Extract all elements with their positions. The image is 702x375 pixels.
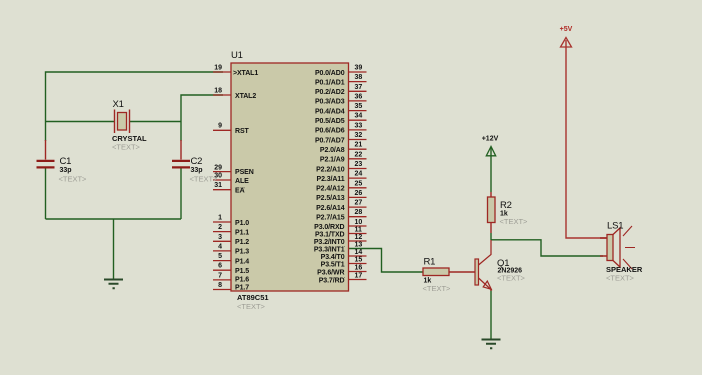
U1 right pin stubs P3 bbox=[349, 226, 367, 280]
svg-text:38: 38 bbox=[355, 74, 363, 81]
svg-text:28: 28 bbox=[355, 209, 363, 216]
svg-text:P3.4/T0: P3.4/T0 bbox=[321, 254, 345, 261]
svg-text:P0.0/AD0: P0.0/AD0 bbox=[315, 70, 345, 77]
wire C2 bottom bbox=[180, 169, 182, 220]
svg-text:P0.3/AD3: P0.3/AD3 bbox=[315, 99, 345, 106]
svg-text:P3.2/INT0: P3.2/INT0 bbox=[314, 239, 345, 246]
svg-text:>XTAL1: >XTAL1 bbox=[233, 70, 258, 77]
svg-text:33: 33 bbox=[355, 122, 363, 129]
wire +5V to speaker top terminal (red power net) bbox=[566, 40, 607, 238]
svg-text:39: 39 bbox=[355, 65, 363, 72]
wire XTAL2 net: pin18 to C2 column bbox=[181, 95, 223, 141]
power symbol +5V bbox=[560, 26, 573, 47]
speaker LS1 bbox=[600, 221, 643, 283]
svg-text:LS1: LS1 bbox=[607, 221, 623, 232]
svg-text:17: 17 bbox=[355, 273, 363, 280]
op-amp U1 chip body AT89C51 bbox=[231, 50, 349, 311]
svg-text:7: 7 bbox=[218, 272, 222, 279]
svg-text:P2.3/A11: P2.3/A11 bbox=[317, 176, 345, 183]
U1 left pin stubs bbox=[213, 72, 231, 290]
ground symbol left bbox=[104, 280, 123, 289]
svg-text:33p: 33p bbox=[191, 167, 203, 174]
svg-text:<TEXT>: <TEXT> bbox=[500, 217, 529, 226]
svg-text:P0.5/AD5: P0.5/AD5 bbox=[315, 118, 345, 125]
svg-text:P3.3/INT1: P3.3/INT1 bbox=[314, 246, 345, 253]
svg-text:P2.2/A10: P2.2/A10 bbox=[316, 166, 345, 173]
wire XTAL1 net: pin19 to left column bbox=[46, 72, 224, 141]
svg-text:<TEXT>: <TEXT> bbox=[112, 143, 141, 152]
svg-text:6: 6 bbox=[218, 263, 222, 270]
svg-text:14: 14 bbox=[355, 249, 363, 256]
svg-text:C1: C1 bbox=[60, 156, 72, 167]
svg-text:<TEXT>: <TEXT> bbox=[497, 274, 526, 283]
svg-text:<TEXT>: <TEXT> bbox=[606, 274, 635, 283]
svg-text:P1.4: P1.4 bbox=[235, 258, 249, 265]
svg-text:5: 5 bbox=[218, 253, 222, 260]
svg-text:P3.7/RD: P3.7/RD bbox=[319, 277, 345, 284]
U1 right pin names P2 bbox=[316, 147, 345, 222]
svg-text:P2.7/A15: P2.7/A15 bbox=[316, 215, 345, 222]
svg-text:4: 4 bbox=[218, 243, 222, 250]
svg-text:18: 18 bbox=[214, 88, 222, 95]
U1 right pin names P3 bbox=[314, 224, 345, 284]
svg-text:P1.7: P1.7 bbox=[235, 284, 249, 291]
svg-text:33p: 33p bbox=[60, 167, 72, 174]
ground symbol under Q1 bbox=[482, 340, 501, 349]
resistor R1 bbox=[423, 257, 476, 294]
svg-text:8: 8 bbox=[218, 282, 222, 289]
svg-text:25: 25 bbox=[355, 180, 363, 187]
svg-text:U1: U1 bbox=[231, 50, 243, 61]
svg-text:R2: R2 bbox=[500, 200, 512, 211]
transistor Q1 2N2926 bbox=[475, 240, 526, 291]
svg-text:<TEXT>: <TEXT> bbox=[237, 302, 266, 311]
svg-text:P0.2/AD2: P0.2/AD2 bbox=[315, 89, 345, 96]
svg-text:R1: R1 bbox=[424, 257, 436, 268]
svg-text:P3.1/TXD: P3.1/TXD bbox=[315, 231, 345, 238]
svg-text:11: 11 bbox=[355, 227, 363, 234]
svg-text:RST: RST bbox=[235, 128, 250, 135]
svg-text:+5V: +5V bbox=[560, 26, 573, 33]
wire C1 bottom bbox=[45, 169, 47, 220]
U1 left pin names bbox=[233, 70, 258, 291]
svg-text:AT89C51: AT89C51 bbox=[237, 293, 269, 302]
svg-text:<TEXT>: <TEXT> bbox=[59, 174, 88, 183]
svg-text:P1.6: P1.6 bbox=[235, 277, 249, 284]
svg-text:P0.7/AD7: P0.7/AD7 bbox=[315, 137, 345, 144]
svg-text:32: 32 bbox=[355, 132, 363, 139]
svg-text:12: 12 bbox=[355, 234, 363, 241]
svg-text:XTAL2: XTAL2 bbox=[235, 93, 256, 100]
svg-text:24: 24 bbox=[355, 171, 363, 178]
capacitor C2 bbox=[172, 140, 218, 183]
svg-text:37: 37 bbox=[355, 84, 363, 91]
svg-text:34: 34 bbox=[355, 113, 363, 120]
svg-text:27: 27 bbox=[355, 200, 363, 207]
svg-text:21: 21 bbox=[355, 142, 363, 149]
svg-text:3: 3 bbox=[218, 234, 222, 241]
svg-text:19: 19 bbox=[214, 65, 222, 72]
U1 right pin numbers bbox=[355, 65, 363, 280]
wire R2 bottom to collector junction bbox=[490, 233, 492, 240]
svg-text:ALE: ALE bbox=[235, 178, 249, 185]
U1 left pin numbers bbox=[214, 65, 222, 290]
svg-text:P0.1/AD1: P0.1/AD1 bbox=[315, 79, 345, 86]
wire crystal horizontal bbox=[46, 121, 182, 123]
svg-text:P2.5/A13: P2.5/A13 bbox=[316, 195, 345, 202]
wire emitter to ground bbox=[490, 290, 492, 339]
wire +12V to R2 top bbox=[490, 148, 492, 192]
svg-text:13: 13 bbox=[355, 242, 363, 249]
svg-text:23: 23 bbox=[355, 161, 363, 168]
svg-text:15: 15 bbox=[355, 257, 363, 264]
svg-text:<TEXT>: <TEXT> bbox=[190, 174, 219, 183]
svg-text:22: 22 bbox=[355, 151, 363, 158]
svg-text:P1.2: P1.2 bbox=[235, 239, 249, 246]
svg-text:P0.4/AD4: P0.4/AD4 bbox=[315, 108, 345, 115]
capacitor C1 bbox=[37, 140, 88, 183]
svg-text:P1.0: P1.0 bbox=[235, 220, 249, 227]
svg-text:26: 26 bbox=[355, 190, 363, 197]
crystal X1 bbox=[112, 99, 147, 152]
svg-text:P0.6/AD6: P0.6/AD6 bbox=[315, 128, 345, 135]
svg-text:10: 10 bbox=[355, 219, 363, 226]
U1 right pin stubs P0 bbox=[349, 72, 367, 140]
svg-text:P1.3: P1.3 bbox=[235, 249, 249, 256]
svg-text:PSEN: PSEN bbox=[235, 169, 254, 176]
svg-text:P2.0/A8: P2.0/A8 bbox=[320, 147, 345, 154]
svg-text:P1.5: P1.5 bbox=[235, 268, 249, 275]
resistor R2 bbox=[488, 192, 529, 233]
svg-text:36: 36 bbox=[355, 93, 363, 100]
svg-text:P2.4/A12: P2.4/A12 bbox=[316, 186, 345, 193]
wire ground bus bottom-left bbox=[46, 219, 182, 279]
U1 right pin stubs P2 bbox=[349, 149, 367, 217]
svg-text:P3.0/RXD: P3.0/RXD bbox=[314, 224, 344, 231]
svg-text:P2.1/A9: P2.1/A9 bbox=[320, 157, 345, 164]
wire collector junction to speaker bottom terminal bbox=[491, 240, 603, 256]
svg-text:P3.6/WR: P3.6/WR bbox=[317, 269, 344, 276]
svg-text:X1: X1 bbox=[113, 99, 124, 110]
svg-text:P1.1: P1.1 bbox=[235, 229, 249, 236]
svg-text:1: 1 bbox=[218, 215, 222, 222]
svg-text:C2: C2 bbox=[191, 156, 203, 167]
U1 right pin names P0 bbox=[315, 70, 345, 145]
svg-text:<TEXT>: <TEXT> bbox=[423, 284, 452, 293]
svg-text:29: 29 bbox=[214, 164, 222, 171]
svg-text:+12V: +12V bbox=[482, 136, 499, 143]
svg-text:35: 35 bbox=[355, 103, 363, 110]
svg-text:16: 16 bbox=[355, 265, 363, 272]
svg-text:P3.5/T1: P3.5/T1 bbox=[321, 261, 345, 268]
svg-text:2: 2 bbox=[218, 224, 222, 231]
svg-text:P2.6/A14: P2.6/A14 bbox=[316, 205, 345, 212]
svg-text:9: 9 bbox=[218, 123, 222, 130]
wire P3.3 to R1 bbox=[348, 249, 423, 273]
power symbol +12V bbox=[482, 136, 499, 156]
svg-text:EA: EA bbox=[235, 188, 245, 195]
